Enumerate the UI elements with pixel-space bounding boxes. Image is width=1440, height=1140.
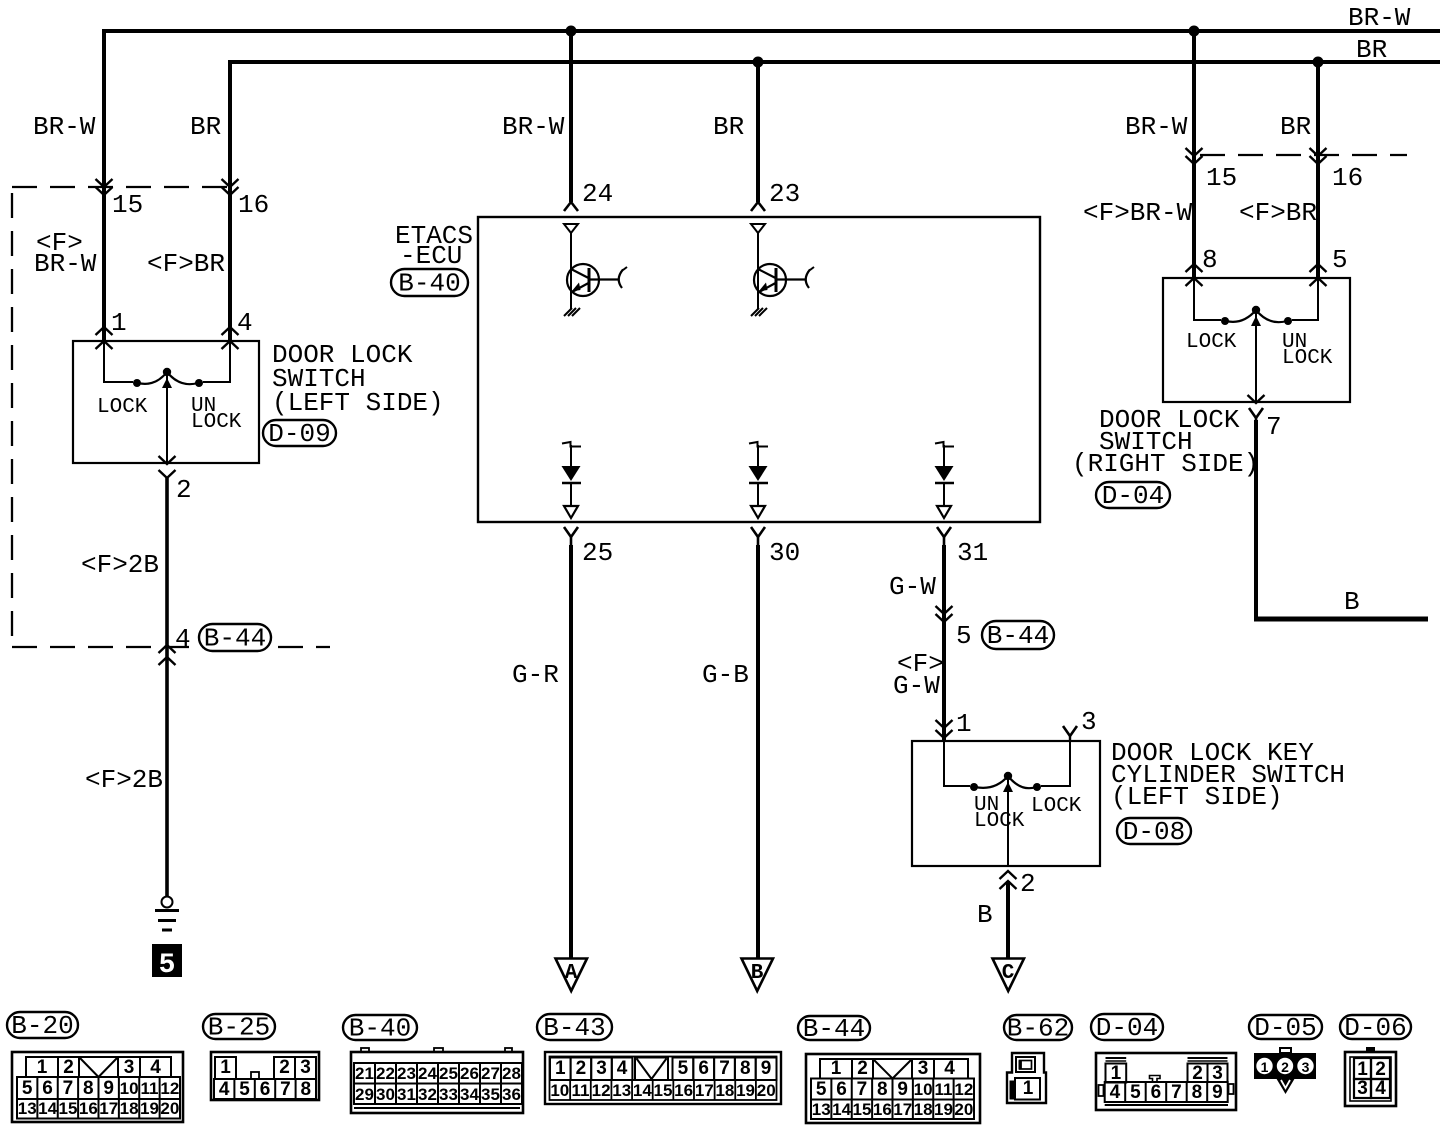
label 31 — [957, 538, 988, 568]
svg-text:6: 6 — [836, 1079, 847, 1100]
svg-text:17: 17 — [893, 1100, 912, 1119]
connector B-44 pinout — [806, 1054, 980, 1123]
svg-text:12: 12 — [160, 1079, 179, 1098]
connector B-43 label — [537, 1013, 612, 1043]
svg-text:3: 3 — [1081, 707, 1097, 737]
svg-text:BR: BR — [1356, 35, 1387, 65]
wire G-W (pin 31 down) — [942, 545, 946, 741]
svg-text:14: 14 — [38, 1099, 57, 1118]
dashed door boundary (left) — [12, 187, 330, 647]
svg-text:16: 16 — [674, 1081, 693, 1100]
svg-text:32: 32 — [418, 1085, 437, 1104]
svg-text:-ECU: -ECU — [400, 241, 462, 271]
D-08 LOCK contact — [1033, 783, 1041, 791]
svg-text:B-43: B-43 — [543, 1013, 605, 1043]
svg-text:34: 34 — [460, 1085, 479, 1104]
svg-text:15: 15 — [654, 1081, 673, 1100]
svg-text:BR: BR — [190, 112, 221, 142]
label 25 — [582, 538, 613, 568]
dashed door boundary (right) — [1200, 154, 1407, 156]
svg-text:7: 7 — [63, 1078, 74, 1099]
svg-text:24: 24 — [582, 179, 613, 209]
connector chevrons 15 (left) — [96, 179, 113, 195]
connector chevrons pin 1 (D-08) — [936, 720, 953, 738]
svg-text:8: 8 — [1192, 1082, 1203, 1103]
svg-text:BR-W: BR-W — [1125, 112, 1188, 142]
svg-text:<F>BR: <F>BR — [1239, 198, 1317, 228]
D-09 pin 1 internal lead — [104, 341, 133, 383]
label LOCK (D-04) — [1186, 331, 1237, 354]
D-09 switch blades — [138, 372, 198, 384]
svg-text:B: B — [751, 962, 764, 985]
label G-W — [889, 572, 936, 602]
connector B-25 label — [203, 1012, 275, 1042]
wire BR-W drop to D-09 pin 1 — [102, 31, 106, 341]
D-04 pin 8 internal lead — [1194, 278, 1221, 321]
junction dot BR-W bus / right drop — [1189, 26, 1200, 37]
svg-text:G-W: G-W — [889, 572, 936, 602]
ref designator D-09 — [263, 419, 336, 449]
svg-text:6: 6 — [42, 1078, 53, 1099]
svg-text:D-05: D-05 — [1254, 1013, 1316, 1043]
connector chevrons pin 2 (D-08 exit) — [1000, 871, 1017, 889]
svg-text:1: 1 — [220, 1057, 231, 1078]
label 23 — [769, 179, 800, 209]
svg-text:19: 19 — [934, 1100, 953, 1119]
svg-text:5: 5 — [22, 1078, 33, 1099]
title DOOR LOCK KEY CYLINDER SWITCH (LEFT SIDE) — [1111, 738, 1345, 812]
svg-text:1: 1 — [555, 1058, 566, 1079]
label BR (right) — [1280, 112, 1311, 142]
door lock switch right box (D-04) — [1163, 278, 1350, 402]
connector B-62 pinout — [1007, 1053, 1046, 1103]
junction dot BR bus / right drop — [1313, 57, 1324, 68]
svg-text:11: 11 — [934, 1080, 952, 1099]
svg-text:D-09: D-09 — [268, 419, 330, 449]
svg-text:4: 4 — [219, 1079, 230, 1100]
wire BR-W drop to D-04 pin 8 — [1192, 31, 1196, 278]
transistor Q2 (unlock output, pin 23) — [751, 224, 814, 316]
wire B (right, down and across) — [1254, 420, 1428, 619]
svg-text:15: 15 — [1206, 163, 1237, 193]
D-04 common output wire with up arrow — [1251, 314, 1261, 402]
label 4 (D-09 pin) — [237, 308, 253, 338]
D-08 pin 3 internal lead — [1041, 741, 1070, 787]
svg-text:17: 17 — [99, 1099, 118, 1118]
svg-text:35: 35 — [481, 1085, 500, 1104]
connector B-62 label — [1004, 1013, 1072, 1043]
svg-text:G-R: G-R — [512, 660, 559, 690]
connector chevrons 16 (right) — [1310, 148, 1327, 164]
svg-text:G-W: G-W — [893, 671, 940, 701]
wire BR drop to D-04 pin 5 — [1316, 62, 1320, 278]
connector D-05 pinout — [1254, 1048, 1316, 1094]
svg-text:8: 8 — [1202, 245, 1218, 275]
connector D-05 label — [1249, 1013, 1322, 1043]
title ETACS-ECU — [395, 221, 473, 271]
svg-text:1: 1 — [1023, 1078, 1034, 1099]
connector arrow B — [742, 959, 774, 992]
D-08 common output wire with up arrow — [1003, 780, 1013, 866]
svg-text:9: 9 — [1212, 1082, 1223, 1103]
connector chevrons 5 B-44 — [936, 606, 953, 622]
svg-text:5: 5 — [956, 621, 972, 651]
svg-text:15: 15 — [852, 1100, 871, 1119]
connector D-06 pinout — [1345, 1047, 1396, 1106]
svg-text:14: 14 — [633, 1081, 652, 1100]
svg-text:2: 2 — [857, 1058, 868, 1079]
connector chevrons 15 (right) — [1186, 148, 1203, 164]
connector B-40 label — [343, 1013, 417, 1043]
svg-text:24: 24 — [418, 1064, 437, 1083]
svg-text:B-20: B-20 — [11, 1011, 73, 1041]
wire (F)2B to ground — [165, 478, 169, 896]
svg-text:BR: BR — [713, 112, 744, 142]
svg-text:3: 3 — [300, 1057, 311, 1078]
label (F)BR — [147, 249, 225, 279]
label BR-W (top right) — [1348, 3, 1411, 33]
connector arrow A — [556, 959, 588, 992]
svg-text:8: 8 — [83, 1078, 94, 1099]
label 4 (B-44 pin) — [175, 624, 191, 654]
svg-text:LOCK: LOCK — [1186, 331, 1237, 354]
svg-text:1: 1 — [37, 1057, 48, 1078]
svg-text:3: 3 — [1357, 1078, 1368, 1099]
svg-text:4: 4 — [944, 1058, 955, 1079]
label (F)2B (lower) — [85, 765, 163, 795]
svg-text:(LEFT SIDE): (LEFT SIDE) — [272, 388, 444, 418]
connector B-20 pinout — [12, 1052, 183, 1122]
svg-text:B-44: B-44 — [204, 623, 266, 653]
svg-text:8: 8 — [740, 1058, 751, 1079]
connector chevrons pin 5 (D-04) — [1310, 264, 1327, 286]
svg-text:20: 20 — [160, 1099, 179, 1118]
svg-text:2: 2 — [63, 1057, 74, 1078]
svg-text:6: 6 — [698, 1058, 709, 1079]
connector fork pin 31 — [937, 527, 951, 545]
svg-text:B-62: B-62 — [1007, 1013, 1069, 1043]
svg-text:9: 9 — [897, 1079, 908, 1100]
svg-text:BR-W: BR-W — [502, 112, 565, 142]
connector chevrons 16 (left) — [222, 179, 239, 195]
svg-text:B-44: B-44 — [803, 1014, 865, 1044]
svg-text:10: 10 — [120, 1079, 139, 1098]
diode D3 (pin 31 sense) — [935, 442, 955, 518]
label 24 — [582, 179, 613, 209]
label UN LOCK (D-09) — [191, 395, 242, 434]
svg-text:9: 9 — [761, 1058, 772, 1079]
ref designator B-44 (inline) — [199, 623, 271, 653]
svg-text:21: 21 — [355, 1064, 374, 1083]
label 30 — [769, 538, 800, 568]
svg-text:16: 16 — [873, 1100, 892, 1119]
svg-text:22: 22 — [376, 1064, 395, 1083]
svg-text:6: 6 — [1151, 1082, 1162, 1103]
wire G-B (pin 30 to B) — [756, 545, 760, 958]
connector D-06 label — [1340, 1013, 1411, 1043]
svg-text:D-06: D-06 — [1344, 1013, 1406, 1043]
svg-text:7: 7 — [1266, 412, 1282, 442]
connector fork pin 7 — [1249, 408, 1263, 424]
svg-text:9: 9 — [103, 1078, 114, 1099]
label BR — [190, 112, 221, 142]
svg-text:1: 1 — [831, 1058, 842, 1079]
diode D1 (pin 25 sense) — [562, 442, 582, 518]
svg-text:LOCK: LOCK — [1282, 347, 1333, 370]
svg-text:16: 16 — [1332, 163, 1363, 193]
svg-text:BR-W: BR-W — [1348, 3, 1411, 33]
svg-text:31: 31 — [397, 1085, 416, 1104]
svg-text:2: 2 — [576, 1058, 587, 1079]
svg-text:1: 1 — [1357, 1059, 1368, 1080]
svg-text:13: 13 — [812, 1100, 831, 1119]
svg-text:1: 1 — [956, 709, 972, 739]
svg-text:B-40: B-40 — [349, 1013, 411, 1043]
svg-text:5: 5 — [678, 1058, 689, 1079]
svg-text:5: 5 — [816, 1079, 827, 1100]
ETACS-ECU box (B-40) — [478, 217, 1040, 522]
svg-text:1: 1 — [1261, 1059, 1269, 1075]
svg-text:3: 3 — [596, 1058, 607, 1079]
svg-text:D-04: D-04 — [1102, 481, 1164, 511]
svg-text:<F>2B: <F>2B — [81, 550, 159, 580]
svg-text:2: 2 — [1375, 1059, 1386, 1080]
wire BR-W top bus — [102, 29, 1440, 33]
ref designator B-40 — [391, 268, 468, 298]
wire BR drop to ETACS pin 23 — [756, 62, 760, 202]
label 7 (D-04 pin) — [1266, 412, 1282, 442]
svg-text:10: 10 — [914, 1080, 933, 1099]
connector B-20 label — [7, 1011, 78, 1041]
svg-text:4: 4 — [1375, 1078, 1386, 1099]
svg-text:23: 23 — [769, 179, 800, 209]
label 16 — [238, 190, 269, 220]
label 3 (D-08 pin) — [1081, 707, 1097, 737]
connector chevrons pin 1 (D-09) — [96, 327, 113, 349]
svg-text:19: 19 — [140, 1099, 159, 1118]
svg-text:4: 4 — [1110, 1082, 1121, 1103]
label BR-W — [33, 112, 96, 142]
label (F) G-W (two lines) — [893, 649, 944, 701]
label LOCK (D-09) — [97, 396, 148, 419]
svg-text:17: 17 — [695, 1081, 714, 1100]
svg-text:B: B — [977, 900, 993, 930]
svg-text:8: 8 — [877, 1079, 888, 1100]
svg-text:25: 25 — [582, 538, 613, 568]
svg-text:18: 18 — [914, 1100, 933, 1119]
svg-text:19: 19 — [736, 1081, 755, 1100]
wire BR-W drop to ETACS pin 24 — [569, 31, 573, 202]
D-04 LOCK contact — [1221, 317, 1229, 325]
svg-text:20: 20 — [954, 1100, 973, 1119]
connector chevrons pin 8 (D-04) — [1186, 264, 1203, 286]
svg-text:3: 3 — [1302, 1059, 1310, 1075]
label B (wire) — [977, 900, 993, 930]
svg-text:23: 23 — [397, 1064, 416, 1083]
D-04 switch blades — [1226, 310, 1287, 322]
transistor Q1 (lock output, pin 24) — [564, 224, 627, 316]
svg-text:3: 3 — [124, 1057, 135, 1078]
D-08 pin 1 internal lead — [944, 741, 970, 787]
svg-text:BR: BR — [1280, 112, 1311, 142]
svg-text:25: 25 — [439, 1064, 458, 1083]
svg-text:7: 7 — [280, 1079, 291, 1100]
label B (right wire) — [1344, 587, 1360, 617]
svg-text:12: 12 — [592, 1081, 611, 1100]
svg-text:4: 4 — [237, 308, 253, 338]
connector fork pin 24 — [564, 202, 578, 211]
svg-text:LOCK: LOCK — [974, 810, 1025, 833]
svg-text:33: 33 — [439, 1085, 458, 1104]
connector chevrons 4 B-44 — [159, 645, 176, 665]
connector fork pin 30 — [751, 527, 765, 545]
connector chevrons pin 2 (D-09 exit) — [159, 456, 176, 478]
connector B-40 pinout — [351, 1048, 523, 1113]
svg-text:5: 5 — [239, 1079, 250, 1100]
connector D-04 label — [1091, 1013, 1163, 1043]
title DOOR LOCK SWITCH (RIGHT SIDE) — [1072, 405, 1259, 479]
ground symbol — [155, 897, 179, 931]
svg-text:5: 5 — [1332, 245, 1348, 275]
ref designator D-08 — [1117, 817, 1191, 847]
svg-text:4: 4 — [617, 1058, 628, 1079]
connector D-04 pinout — [1096, 1053, 1236, 1110]
svg-text:28: 28 — [502, 1064, 521, 1083]
svg-text:(LEFT SIDE): (LEFT SIDE) — [1111, 782, 1283, 812]
label UN LOCK (D-08) — [974, 794, 1025, 833]
label 5 (B-44 pin) — [956, 621, 972, 651]
svg-text:2: 2 — [1020, 869, 1036, 899]
label (F)BR-W (right) — [1083, 198, 1193, 228]
svg-text:5: 5 — [1130, 1082, 1141, 1103]
svg-text:30: 30 — [376, 1085, 395, 1104]
svg-text:29: 29 — [355, 1085, 374, 1104]
label BR (pin 23 drop) — [713, 112, 744, 142]
svg-text:13: 13 — [18, 1099, 37, 1118]
svg-text:B-44: B-44 — [987, 621, 1049, 651]
svg-text:A: A — [565, 962, 578, 985]
label 1 (D-08 pin) — [956, 709, 972, 739]
label BR-W (right) — [1125, 112, 1188, 142]
wire B (pin 2 to C) — [1006, 881, 1010, 958]
D-04 pin 5 internal lead — [1292, 278, 1318, 321]
label 2 (D-08 pin) — [1020, 869, 1036, 899]
svg-text:4: 4 — [175, 624, 191, 654]
svg-text:2: 2 — [1192, 1063, 1203, 1084]
svg-text:(RIGHT SIDE): (RIGHT SIDE) — [1072, 449, 1259, 479]
wire G-R (pin 25 to A) — [569, 545, 573, 958]
svg-text:7: 7 — [857, 1079, 868, 1100]
svg-text:7: 7 — [719, 1058, 730, 1079]
junction dot BR bus / ETACS drop — [753, 57, 764, 68]
label 15 (right) — [1206, 163, 1237, 193]
svg-text:30: 30 — [769, 538, 800, 568]
svg-text:LOCK: LOCK — [97, 396, 148, 419]
connector B-44 label — [798, 1014, 870, 1044]
svg-text:C: C — [1002, 962, 1015, 985]
svg-text:3: 3 — [918, 1058, 929, 1079]
svg-text:1: 1 — [1111, 1063, 1122, 1084]
connector fork pin 23 — [751, 202, 765, 211]
label 15 — [112, 190, 143, 220]
connector fork pin 25 — [564, 527, 578, 545]
D-09 LOCK contact — [133, 379, 141, 387]
svg-text:B-25: B-25 — [208, 1012, 270, 1042]
ground ref 5 (black square) — [152, 944, 182, 981]
svg-text:10: 10 — [550, 1081, 569, 1100]
svg-text:15: 15 — [112, 190, 143, 220]
label 5 (D-04 pin) — [1332, 245, 1348, 275]
D-09 UNLOCK contact — [195, 379, 203, 387]
ref designator D-04 (stadium) — [1096, 481, 1170, 511]
svg-text:5: 5 — [159, 950, 176, 981]
D-08 UNLOCK contact — [970, 783, 978, 791]
label G-R — [512, 660, 559, 690]
svg-text:14: 14 — [832, 1100, 851, 1119]
label LOCK (D-08) — [1031, 795, 1082, 818]
D-09 common output wire with up arrow — [162, 376, 172, 463]
label 2 (D-09 pin) — [176, 475, 192, 505]
svg-text:BR-W: BR-W — [33, 112, 96, 142]
svg-text:G-B: G-B — [702, 660, 749, 690]
svg-text:<F>2B: <F>2B — [85, 765, 163, 795]
D-04 UNLOCK contact — [1284, 317, 1292, 325]
svg-text:16: 16 — [79, 1099, 98, 1118]
svg-text:LOCK: LOCK — [191, 411, 242, 434]
svg-text:3: 3 — [1212, 1063, 1223, 1084]
svg-text:LOCK: LOCK — [1031, 795, 1082, 818]
label 16 (right) — [1332, 163, 1363, 193]
label 1 (D-09 pin) — [111, 308, 127, 338]
svg-text:18: 18 — [715, 1081, 734, 1100]
label UN LOCK (D-04) — [1282, 331, 1333, 370]
svg-text:<F>BR-W: <F>BR-W — [1083, 198, 1193, 228]
svg-text:11: 11 — [140, 1079, 158, 1098]
svg-text:15: 15 — [58, 1099, 77, 1118]
label 8 (D-04 pin) — [1202, 245, 1218, 275]
label (F) BR-W (two lines) — [34, 228, 97, 279]
svg-text:2: 2 — [279, 1057, 290, 1078]
wire BR drop to D-09 pin 4 — [228, 62, 232, 341]
label BR-W (pin 24 drop) — [502, 112, 565, 142]
diode D2 (pin 30 sense) — [749, 442, 769, 518]
label (F)2B (upper) — [81, 550, 159, 580]
svg-text:27: 27 — [481, 1064, 500, 1083]
connector chevrons pin 4 (D-09) — [222, 327, 239, 349]
svg-text:20: 20 — [757, 1081, 776, 1100]
ref designator B-44 (inline right) — [982, 621, 1054, 651]
label BR (top right) — [1356, 35, 1387, 65]
key cylinder switch box (D-08) — [912, 741, 1100, 866]
svg-text:18: 18 — [120, 1099, 139, 1118]
svg-text:1: 1 — [111, 308, 127, 338]
svg-text:16: 16 — [238, 190, 269, 220]
svg-text:2: 2 — [1281, 1059, 1289, 1075]
connector fork pin 3 (D-08) — [1063, 726, 1077, 741]
svg-text:36: 36 — [502, 1085, 521, 1104]
svg-text:B-40: B-40 — [398, 268, 460, 298]
connector arrow pin 7 (D-04 exit) — [1248, 395, 1265, 403]
label (F)BR (right) — [1239, 198, 1317, 228]
svg-text:B: B — [1344, 587, 1360, 617]
svg-text:4: 4 — [150, 1057, 161, 1078]
svg-text:2: 2 — [176, 475, 192, 505]
title DOOR LOCK SWITCH (LEFT SIDE) — [272, 340, 444, 418]
junction dot BR-W bus / left ETACS drop — [566, 26, 577, 37]
D-09 switch pivot — [163, 368, 171, 376]
svg-text:<F>BR: <F>BR — [147, 249, 225, 279]
connector arrow C — [993, 959, 1025, 992]
